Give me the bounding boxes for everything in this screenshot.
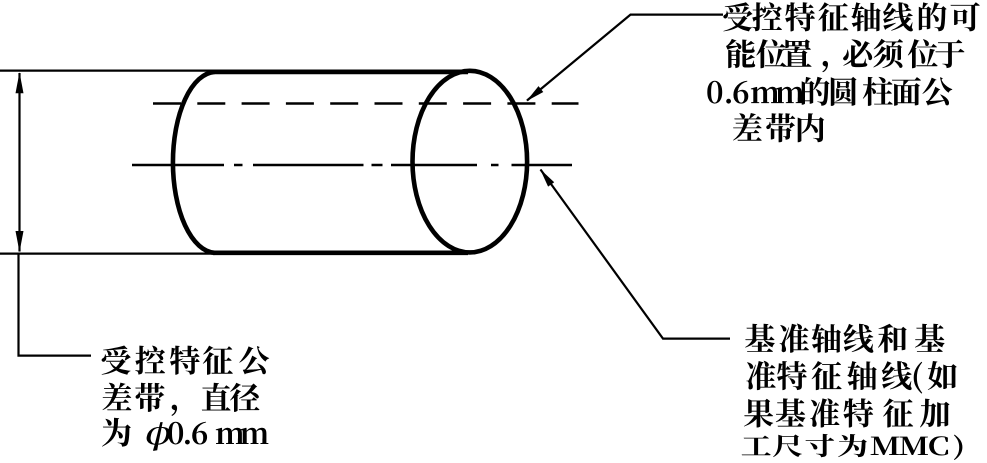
extension line bottom [0, 253, 458, 255]
arrowhead of leader A [526, 86, 543, 101]
cylinder left end arc [173, 72, 215, 253]
text annotation C line2: 准特征轴线(如 [747, 361, 957, 394]
text annotation B line1: 受控特征公 [102, 346, 270, 375]
dimension arrowhead up [16, 72, 24, 93]
text annotation A line4: 差带内 [733, 113, 824, 142]
cylinder right end ellipse [413, 71, 528, 253]
text annotation A line3: 0.6mm的圆柱面公 [707, 77, 952, 106]
cylinder bottom edge [213, 251, 468, 256]
center line (axis, dash-dot) [132, 164, 572, 167]
leader from annotation A to dashed line [527, 15, 723, 101]
cylinder top edge [214, 70, 468, 75]
dashed line: tolerance zone boundary [153, 102, 579, 105]
text annotation C line4: 工尺寸为MMC) [742, 434, 963, 460]
dimension arrowhead down [16, 231, 24, 252]
leader to annotation B (bottom-left) [19, 254, 92, 356]
text annotation B line2: 差带，直径 [103, 383, 260, 416]
text annotation B line3: 为φ0.6mm [102, 418, 268, 451]
text annotation A line2: 能位置，必须位于 [726, 39, 964, 73]
leader from annotation C to center line [541, 170, 731, 339]
arrowhead of leader C [540, 169, 554, 187]
text annotation A line1: 受控特征轴线的可 [723, 2, 980, 31]
extension line top [0, 69, 468, 71]
text annotation C line1: 基准轴线和基 [745, 324, 944, 353]
text annotation C line3: 果基准特征加 [744, 398, 950, 427]
dimension line (tolerance zone width) [18, 73, 20, 252]
